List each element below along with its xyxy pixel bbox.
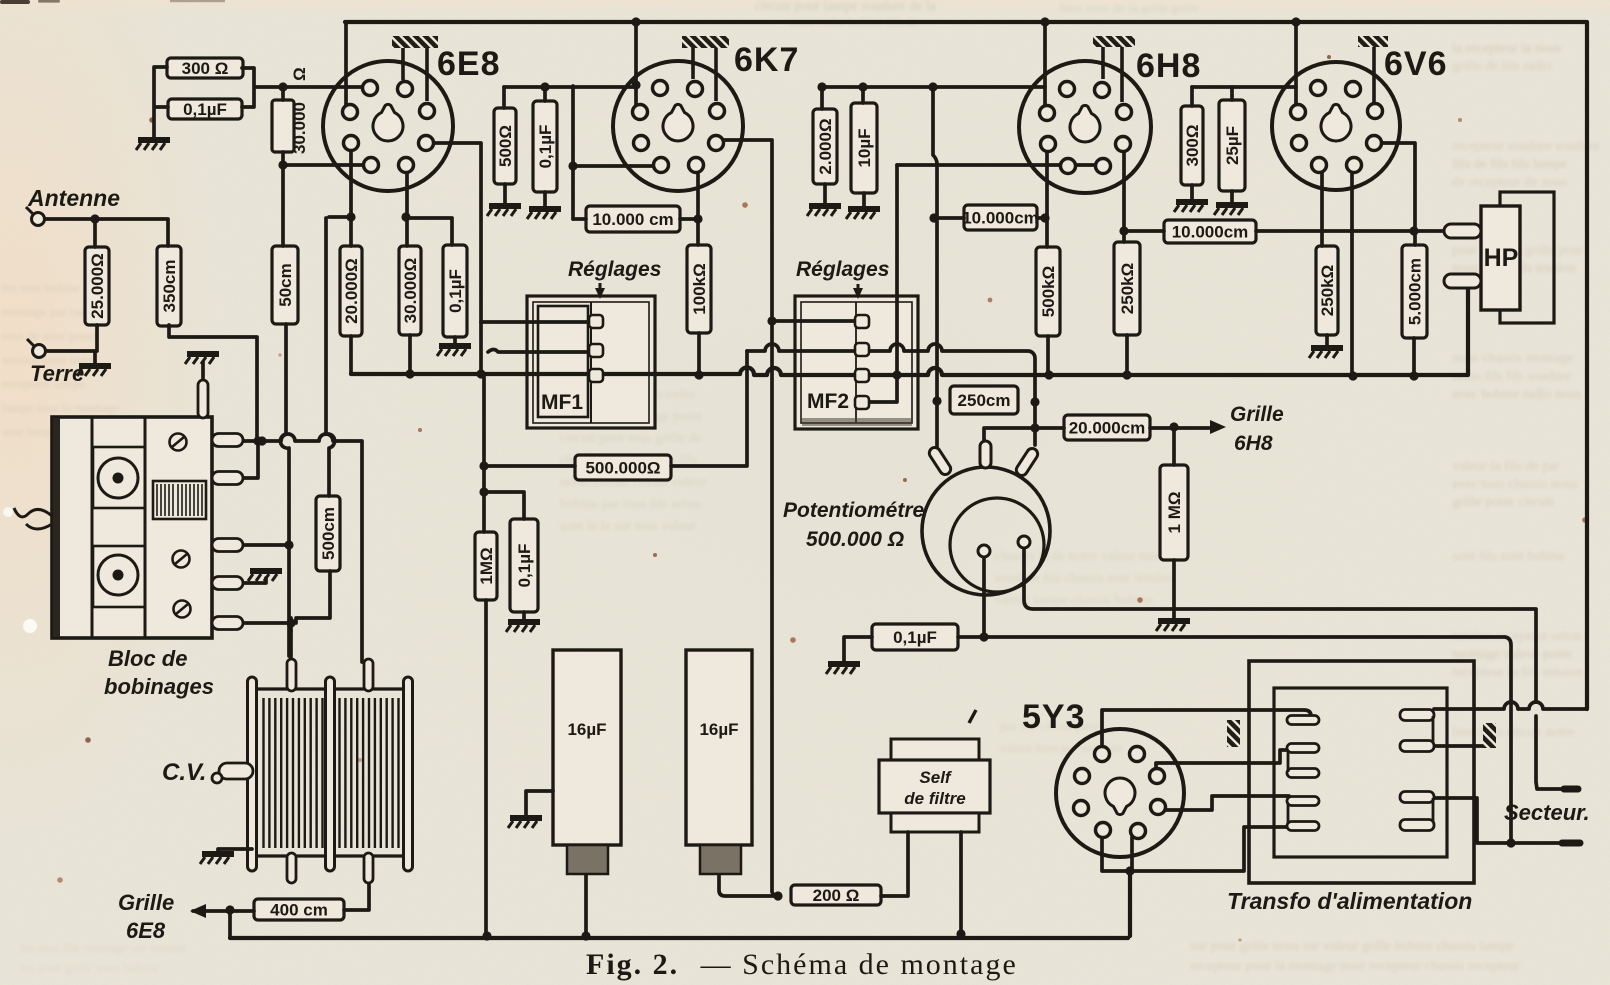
- svg-text:Secteur.: Secteur.: [1504, 800, 1590, 825]
- svg-text:sur pour grille nous sur valeu: sur pour grille nous sur valeur grille b…: [1190, 939, 1514, 954]
- wire bus drop to 6K7 pin1: [634, 22, 638, 109]
- svg-text:Terre: Terre: [30, 361, 84, 386]
- svg-text:10.000 cm: 10.000 cm: [592, 210, 673, 229]
- capacitor 20.000cm: [1064, 415, 1150, 440]
- ground 0.1uF screen: [437, 346, 471, 356]
- junction 10000cmb left: [929, 213, 938, 222]
- coil block left pigtail: [14, 508, 52, 529]
- junction 20000cm/1Mb: [1169, 422, 1178, 431]
- coil block adjustment screws: [170, 434, 191, 618]
- svg-text:6V6: 6V6: [1384, 45, 1448, 83]
- wire 30000 bottom to 6E8 grid pin: [283, 152, 366, 165]
- wire 6E8 pin8 drop and 0.1uF branch: [406, 168, 452, 246]
- svg-text:500.000 Ω: 500.000 Ω: [806, 528, 904, 551]
- svg-text:fils de fils fils lampe: fils de fils fils lampe: [1452, 157, 1567, 172]
- svg-text:250cm: 250cm: [958, 391, 1011, 410]
- ground 2000ohm: [807, 206, 841, 216]
- svg-text:Ω: Ω: [290, 67, 309, 81]
- junction 10000cmb right: [1040, 213, 1049, 222]
- wire 300ohm group right side: [242, 68, 366, 107]
- svg-text:les pour grille nous bobine: les pour grille nous bobine: [20, 960, 159, 975]
- svg-text:avec tous chassis nous: avec tous chassis nous: [1452, 477, 1578, 492]
- junction 6V6 plate/5000cm: [1409, 226, 1418, 235]
- ground bloc pin4: [248, 571, 282, 581]
- label Bloc de bobinages: [104, 646, 214, 699]
- wire 5Y3 lower right pin to transformer: [1152, 796, 1289, 810]
- wire 5Y3 right pin to transformer: [1156, 750, 1289, 774]
- resistor 500k ohm: [1036, 247, 1060, 336]
- wire 10000cm-a left lead: [573, 217, 586, 221]
- wire CV top left stem riser: [289, 631, 293, 662]
- svg-text:5.000cm: 5.000cm: [1406, 258, 1425, 325]
- junction y86/10uF: [858, 82, 867, 91]
- wire 6H8 pin5 drop through 500k: [1047, 147, 1048, 374]
- svg-text:bobinages: bobinages: [104, 674, 214, 699]
- svg-text:0,1µF: 0,1µF: [183, 100, 227, 119]
- svg-text:16µF: 16µF: [699, 720, 738, 739]
- svg-text:C.V.: C.V.: [162, 759, 206, 786]
- wire 30000b bottom stub: [408, 335, 412, 374]
- ground 10uF: [846, 209, 880, 219]
- wire 01uF-a bottom to ground: [453, 337, 457, 344]
- svg-text:20.000cm: 20.000cm: [1069, 419, 1146, 438]
- svg-text:300 Ω: 300 Ω: [182, 59, 229, 78]
- capacitor 10.000cm a: [586, 206, 680, 232]
- junction top bus / 6V6 drop: [1291, 17, 1300, 26]
- junction 6E8 screen node: [401, 212, 410, 221]
- junction y164 detector tap: [1058, 160, 1067, 169]
- wire MF2 pin1 from plate line: [772, 319, 860, 323]
- tube 6H8 socket: [1019, 61, 1151, 193]
- wire 25000 drop from antenna: [93, 219, 97, 247]
- resistor 2.000 ohm: [813, 109, 837, 184]
- wire AVC line A MF1 to pot: [747, 344, 1035, 445]
- svg-text:6E8: 6E8: [437, 45, 501, 83]
- CV connection stems: [287, 659, 373, 883]
- wire 100k bottom stub: [697, 333, 701, 375]
- wire x484 1M chain: [482, 374, 486, 532]
- wire y86 right run: [1192, 85, 1296, 89]
- wire 01uF-b top stub: [543, 87, 547, 101]
- variable capacitor CV tie rods: [248, 677, 413, 871]
- coil block terminal pins: [212, 434, 243, 630]
- wire 10000cm-b left lead: [934, 216, 964, 220]
- wire bloc pin3 to x289 line: [241, 543, 288, 547]
- label Reglages MF2: [796, 258, 889, 299]
- svg-text:30.000: 30.000: [290, 102, 309, 154]
- capacitor 16uF no1: [553, 650, 621, 874]
- power transformer core boxes: [1249, 661, 1474, 883]
- tube 6K7 socket: [613, 61, 743, 191]
- junction 500000 left node: [479, 461, 488, 470]
- resistor 300 ohm: [167, 58, 243, 78]
- wire B- bottom bus: [230, 871, 1130, 938]
- wire pot right pin line1 to secteur lead: [1024, 548, 1570, 789]
- wire pot wiper to 20000cm: [984, 428, 1064, 441]
- wire 6V6 pin7 drop to 250k-b: [1320, 168, 1324, 246]
- wire line2 B- return: [958, 637, 1511, 843]
- wire y86 mid run: [863, 85, 1045, 89]
- junction 10000cma right: [693, 214, 702, 223]
- svg-text:MF2: MF2: [807, 390, 849, 413]
- svg-text:grille de fils radio: grille de fils radio: [1452, 59, 1552, 74]
- ground 0.1uF 6K7: [527, 209, 561, 219]
- ground 300ohm group: [136, 140, 170, 150]
- capacitor 25uF: [1219, 100, 1245, 191]
- junction B-/5Y3 yoke: [1125, 866, 1134, 875]
- ground 300ohm 6V6: [1174, 202, 1208, 212]
- svg-text:50cm: 50cm: [276, 263, 295, 306]
- junction x897 bus: [892, 370, 901, 379]
- chassis bar above 6K7: [682, 36, 729, 101]
- wire 10uF top stub: [861, 87, 865, 103]
- wire secteur lower lead: [1434, 798, 1572, 843]
- label Reglages MF1: [568, 258, 661, 299]
- wire 6E8 plate pin6 to down bus: [430, 143, 481, 374]
- coil block (bloc de bobinages) body: [52, 417, 212, 638]
- ground 0.1uF AF: [506, 622, 540, 632]
- svg-text:100kΩ: 100kΩ: [690, 263, 709, 314]
- transformer chassis tab right: [1483, 723, 1496, 748]
- ground bloc pigtail: [185, 354, 219, 364]
- wire 50cm bottom long drop to CV left stem: [280, 324, 289, 656]
- ground 25uF: [1214, 205, 1248, 215]
- wire y164 detector line: [897, 163, 1096, 167]
- wire bus drop to 6V6 left pin: [1294, 22, 1298, 109]
- svg-text:30.000Ω: 30.000Ω: [401, 258, 420, 324]
- wire 300ohm-b top stub: [1190, 87, 1194, 106]
- junction bloc pin5 node: [286, 618, 295, 627]
- junction pot top right/250cm: [1030, 397, 1039, 406]
- junction y86/x934: [928, 82, 937, 91]
- ground 16uF1: [508, 818, 542, 828]
- junction 30000 grid node: [278, 160, 287, 169]
- svg-text:la recepteur la nous: la recepteur la nous: [1452, 41, 1561, 56]
- svg-text:bobine par tous fils selon: bobine par tous fils selon: [560, 497, 701, 512]
- svg-text:sont la la sur tous valeur: sont la la sur tous valeur: [560, 519, 697, 534]
- svg-text:0,1µF: 0,1µF: [893, 628, 937, 647]
- resistor 100k ohm: [687, 245, 711, 333]
- svg-text:300Ω: 300Ω: [1183, 125, 1202, 167]
- wire 5000cm bottom stub: [1412, 338, 1416, 376]
- wire 30000 junction down to 50cm: [281, 165, 285, 246]
- wire 250k-a bottom stub: [1125, 335, 1129, 374]
- capacitor 400cm: [254, 899, 344, 920]
- junction 6E8 cathode node: [346, 212, 355, 221]
- CV drive shaft: [212, 763, 253, 783]
- svg-text:MF1: MF1: [541, 391, 583, 414]
- svg-text:grille poste circuit: grille poste circuit: [1452, 495, 1554, 510]
- wire 10uF bottom to ground: [862, 193, 866, 207]
- junction y86 2000ohm: [817, 82, 826, 91]
- wire 10000cm-b right lead: [1037, 216, 1046, 220]
- resistor 250k ohm b: [1316, 246, 1338, 335]
- svg-text:sont fils sont bobine: sont fils sont bobine: [1452, 549, 1565, 564]
- antenna terminal: [26, 207, 45, 226]
- wire AVC 500k vertical: [671, 351, 747, 466]
- wire 01uF-b bottom to ground: [543, 192, 547, 207]
- wire 10000cm-c right to 6V6 grid: [1256, 229, 1446, 233]
- svg-text:Bloc de: Bloc de: [108, 646, 187, 671]
- MF2 terminal pins: [855, 315, 869, 409]
- svg-text:0,1µF: 0,1µF: [446, 269, 465, 313]
- junction 200ohm left: [773, 891, 782, 900]
- capacitor 0.1uF 6K7 cathode: [533, 101, 557, 192]
- resistor 30.000 ohm cathode: [399, 246, 421, 335]
- junction top bus / 6K7 drop: [631, 17, 640, 26]
- wire 16uF-2 stem elbow: [719, 875, 778, 896]
- ground terre: [77, 366, 111, 376]
- wire secteur lower end blob: [1562, 840, 1580, 847]
- ground 1Mb: [1156, 621, 1190, 631]
- junction screen x573: [568, 161, 577, 170]
- svg-text:de recepteur de nous: de recepteur de nous: [1452, 175, 1567, 190]
- svg-text:1 MΩ: 1 MΩ: [1165, 492, 1184, 534]
- svg-text:10.000cm: 10.000cm: [1172, 223, 1249, 242]
- junction bus/6H8 500k: [1044, 370, 1053, 379]
- capacitor 16uF no2: [686, 650, 752, 874]
- resistor 500.000 ohm: [575, 455, 671, 480]
- chassis bar above 6V6: [1358, 36, 1388, 103]
- potentiometer solder pins: [978, 536, 1030, 557]
- junction antenna / 25000: [90, 214, 99, 223]
- svg-text:10µF: 10µF: [855, 128, 874, 167]
- svg-text:bien avec de la grille grille: bien avec de la grille grille: [1060, 0, 1199, 15]
- wire 300ohm-b bottom to ground: [1190, 185, 1194, 200]
- arrow to grille 6E8: [190, 904, 206, 918]
- svg-text:1MΩ: 1MΩ: [477, 547, 496, 584]
- wire 6K7 pin8 drop to 100k: [696, 168, 700, 245]
- capacitor 350cm antenna: [157, 246, 181, 326]
- wire 6V6 plate elbow: [1380, 143, 1415, 245]
- svg-text:6H8: 6H8: [1234, 432, 1273, 455]
- wire 01uF-c bottom to ground: [522, 612, 526, 620]
- svg-text:20.000Ω: 20.000Ω: [342, 258, 361, 324]
- capacitor 10.000cm c: [1164, 220, 1256, 243]
- ground CV: [200, 854, 234, 864]
- loudspeaker HP frame: [1500, 192, 1554, 323]
- wire 20000cm right to grille arrow: [1150, 426, 1216, 430]
- wire 25uF top stub: [1230, 87, 1234, 100]
- resistor 1M ohm a: [475, 532, 497, 600]
- IF transformer MF2: [795, 296, 918, 429]
- svg-text:350cm: 350cm: [160, 260, 179, 313]
- chassis bar above 6E8: [392, 36, 438, 101]
- wire transformer HV centre tap to chassis tab: [1434, 744, 1488, 748]
- svg-text:0,1µF: 0,1µF: [536, 125, 555, 169]
- svg-text:de filtre: de filtre: [904, 789, 965, 808]
- label Potentiometre 500.000 ohm: [783, 499, 925, 551]
- wire 6H8 pin6 drop: [1124, 146, 1164, 242]
- wire bus drop to 6H8 pin3: [1043, 22, 1047, 110]
- ground 0.1uF tone: [826, 664, 860, 674]
- svg-text:6E8: 6E8: [126, 918, 166, 943]
- svg-text:valeur lampe chassis bobine: valeur lampe chassis bobine: [995, 593, 1152, 608]
- potentiometer body circles: [922, 467, 1050, 595]
- wire 300ohm group left to ground: [154, 67, 168, 138]
- svg-text:recepteur la fils tension: recepteur la fils tension: [1452, 665, 1583, 680]
- wire line1 secteur end blob: [1564, 786, 1578, 793]
- svg-text:Self: Self: [919, 768, 953, 787]
- resistor 300 ohm 6V6 cathode: [1181, 106, 1203, 185]
- wire 5Y3 plate to transformer: [1102, 710, 1311, 748]
- junction bus/100k: [694, 370, 703, 379]
- wire 5Y3 bottom pin drop: [1130, 837, 1134, 871]
- svg-text:Fig. 2. — Schéma de montage: Fig. 2. — Schéma de montage: [586, 948, 1018, 981]
- capacitor 0.1uF tone: [872, 624, 958, 650]
- wire 1M-b stub: [1172, 427, 1176, 465]
- loudspeaker HP box: [1481, 206, 1520, 310]
- wire bloc pin4 to ground: [241, 578, 266, 583]
- wire 25000 bottom to terre ground: [46, 325, 97, 364]
- terre terminal: [27, 339, 46, 358]
- svg-text:lampe tous la montage: lampe tous la montage: [2, 400, 120, 415]
- wire bloc top pigtail stem: [201, 362, 205, 382]
- wire 01uF-d left lead to ground: [844, 637, 872, 662]
- wire 16uF-1 ground arm: [526, 791, 553, 816]
- capacitor 10uF: [851, 103, 877, 193]
- junction y86/x636: [631, 80, 640, 89]
- wire top HT bus: [345, 22, 1587, 709]
- svg-text:Antenne: Antenne: [27, 185, 120, 211]
- svg-text:Potentiométre: Potentiométre: [783, 499, 925, 522]
- potentiometer lug terminals: [927, 441, 1040, 478]
- wire pot left pin drop: [982, 557, 986, 637]
- svg-text:recepteur pour la montage pour: recepteur pour la montage pour recepteur…: [1190, 959, 1520, 974]
- wire x897 MF2 pin4 riser: [869, 165, 897, 402]
- capacitor 250cm: [950, 386, 1018, 414]
- ground 250kb: [1309, 348, 1343, 358]
- junction top bus / 6H8 drop: [1040, 17, 1049, 26]
- wire 6K7 plate pin6 long center drop: [715, 140, 778, 896]
- wire 6V6 pin8 drop to bus: [1350, 168, 1354, 376]
- wire MF1 pin2 AVC line: [488, 350, 594, 353]
- svg-text:Réglages: Réglages: [568, 258, 661, 281]
- svg-text:Réglages: Réglages: [796, 258, 889, 281]
- wire 6E8 pin3 drop from bus: [344, 22, 348, 110]
- junction 6H8 pin6 coupling: [1119, 226, 1128, 235]
- svg-text:6H8: 6H8: [1136, 47, 1201, 85]
- svg-text:500kΩ: 500kΩ: [1039, 266, 1058, 317]
- transformer secondary winding teeth (right): [1400, 710, 1434, 831]
- svg-text:les sont bobine: les sont bobine: [2, 280, 80, 295]
- wire 30000 grid resistor top stub: [281, 87, 285, 100]
- wire 500 ohm top stub: [502, 87, 506, 108]
- svg-text:6K7: 6K7: [734, 41, 799, 79]
- svg-text:16µF: 16µF: [567, 720, 606, 739]
- svg-text:Grille: Grille: [1230, 403, 1284, 426]
- wire x573 screen feed: [573, 86, 657, 219]
- wire MF1 pin1 from x481: [481, 320, 594, 324]
- wire HP lower terminal drop: [1466, 287, 1470, 375]
- wire 25uF bottom to ground: [1230, 191, 1234, 203]
- junction bus/5000cm: [1409, 371, 1418, 380]
- label Grille 6H8: [1230, 403, 1284, 455]
- wire 10000cm-a right lead: [680, 217, 698, 221]
- wire 5Y3 cathode bottom yoke: [1102, 827, 1289, 871]
- wire bloc pin1 line y441 to CV: [238, 434, 362, 662]
- svg-text:valeur la fils de par: valeur la fils de par: [1452, 459, 1560, 474]
- svg-text:circuit pour lampe soudure de: circuit pour lampe soudure de la: [755, 0, 937, 14]
- wire 500000 ohm left lead: [484, 464, 575, 468]
- wire 500cm top long vert from 6E8 cathode: [326, 218, 335, 496]
- tube 6V6 socket: [1272, 62, 1400, 190]
- wire 20000 bottom stub: [349, 336, 353, 374]
- svg-text:10.000cm: 10.000cm: [962, 209, 1039, 228]
- svg-text:200 Ω: 200 Ω: [813, 886, 860, 905]
- junction bloc pin1/350cm: [257, 436, 266, 445]
- junction bus/250ka: [1122, 370, 1131, 379]
- wire 2000 bottom to ground: [823, 184, 827, 204]
- svg-text:HP: HP: [1484, 244, 1519, 272]
- resistor 200 ohm: [791, 885, 881, 905]
- capacitor 0.1uF AF: [510, 519, 538, 612]
- tube 5Y3 socket: [1056, 729, 1184, 857]
- svg-text:bien tous circuit notre: bien tous circuit notre: [1452, 725, 1574, 740]
- wire antenna lead: [46, 219, 168, 246]
- filter choke (self de filtre) body: [879, 710, 990, 832]
- svg-text:avec bobine radio nous: avec bobine radio nous: [1452, 387, 1581, 402]
- wire CV left bottom stem to ground: [218, 849, 252, 852]
- svg-text:Transfo d'alimentation: Transfo d'alimentation: [1227, 888, 1472, 914]
- junction bus/x481: [476, 369, 485, 378]
- wire 400cm right riser to CV: [344, 882, 369, 910]
- resistor 250k ohm a: [1114, 242, 1140, 335]
- junction grille6E8/400cm: [225, 905, 234, 914]
- svg-text:recepteur soudure soudure: recepteur soudure soudure: [1452, 139, 1600, 154]
- junction pot feed/250cm: [932, 396, 941, 405]
- junction B-/16uF1: [581, 931, 590, 940]
- wire 250k-b bottom to ground: [1325, 335, 1329, 346]
- coil block top pigtail pin: [198, 380, 208, 418]
- wire bloc pin5 junction risers: [289, 618, 293, 631]
- svg-text:2.000Ω: 2.000Ω: [816, 118, 835, 174]
- wire bloc pin2 elbow: [241, 443, 258, 478]
- svg-text:25.000Ω: 25.000Ω: [88, 253, 107, 319]
- tube 6E8 socket: [323, 61, 453, 191]
- wire 01uF-c branch: [484, 492, 524, 519]
- svg-text:nous chassis montage: nous chassis montage: [1452, 351, 1573, 366]
- junction 300ohm output node: [278, 82, 287, 91]
- junction B-/1M drop: [482, 931, 491, 940]
- transformer chassis tab left: [1227, 720, 1240, 747]
- capacitor 0.1uF 6E8 screen: [443, 245, 467, 337]
- svg-text:250kΩ: 250kΩ: [1118, 263, 1137, 314]
- wire 200ohm right to self: [881, 832, 908, 896]
- junction 1M/01uF node: [479, 487, 488, 496]
- wire 1M bottom long drop to B- bus: [484, 600, 488, 935]
- svg-text:25µF: 25µF: [1223, 126, 1242, 165]
- wire 16uF-1 stem: [584, 875, 588, 936]
- capacitor 10.000cm b: [962, 205, 1039, 230]
- wire self right stem to B-: [959, 832, 963, 934]
- svg-text:Grille: Grille: [118, 890, 174, 915]
- wire main HT distribution bus y375: [351, 287, 1468, 375]
- capacitor 5.000cm: [1402, 245, 1427, 338]
- junction bus/30000b: [405, 369, 414, 378]
- page edge artifacts: [0, 0, 225, 633]
- wire grille 6E8 arrow line: [193, 909, 254, 913]
- capacitor 500cm: [316, 496, 340, 571]
- junction wiper/20000cm: [1030, 423, 1039, 432]
- svg-text:500.000Ω: 500.000Ω: [585, 459, 660, 478]
- junction B-/self stem: [956, 929, 965, 938]
- wire 500cm bottom elbow to CV junction: [296, 571, 330, 623]
- capacitor 50cm: [272, 246, 298, 324]
- wire x934 volume feed: [933, 86, 937, 446]
- svg-text:400 cm: 400 cm: [270, 901, 328, 920]
- junction y86/01uFb: [540, 82, 549, 91]
